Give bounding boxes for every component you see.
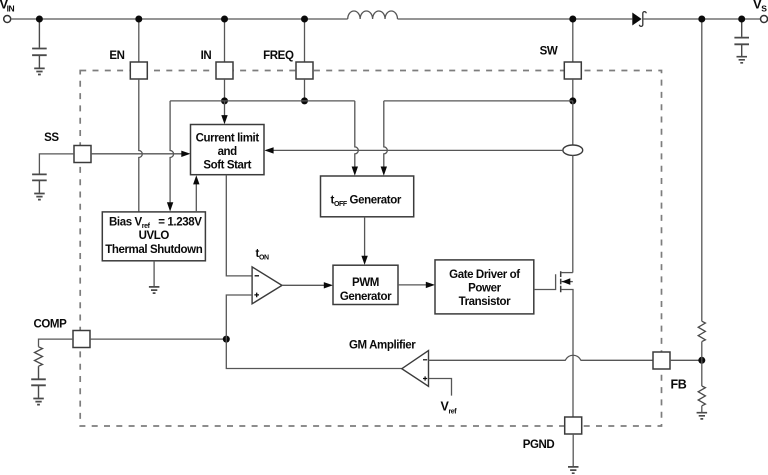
wire SW pin down	[572, 79, 574, 101]
junction C4 on rail	[738, 16, 745, 23]
svg-text:Vref: Vref	[441, 400, 458, 416]
wire SW junction to current sensor	[572, 101, 574, 145]
svg-text:PWM: PWM	[352, 277, 379, 289]
ground C3	[33, 399, 44, 405]
svg-text:Gate Driver of: Gate Driver of	[449, 269, 520, 281]
IC boundary dashed box	[80, 71, 661, 427]
resistor R2 (lower divider)	[698, 386, 705, 406]
diode D1 (schottky)	[632, 12, 646, 27]
svg-text:tON: tON	[256, 248, 269, 262]
wire top rail VIN to inductor	[11, 18, 348, 20]
capacitor C4 (output cap)	[734, 19, 749, 56]
svg-text:FREQ: FREQ	[263, 50, 294, 62]
wire GM plus input to Vref	[429, 379, 452, 396]
wire VS rail to R1	[701, 19, 703, 321]
pin SW	[564, 62, 581, 79]
pin COMP	[73, 331, 90, 348]
wire IN pin to internal rail	[224, 79, 226, 101]
current sensor ellipse	[563, 145, 583, 155]
svg-text:Current limit: Current limit	[196, 132, 260, 144]
wire COMP pin to compensation network	[39, 339, 74, 347]
junction SW internal	[569, 97, 576, 104]
pin FREQ	[296, 62, 313, 79]
wire rail to tOFF left input (hops over sense wire)	[355, 101, 359, 167]
wire comparator output to PWM (arrow)	[282, 284, 325, 286]
wire FREQ column from rail	[304, 19, 306, 62]
svg-text:VS: VS	[753, 0, 767, 14]
wire rail down to Bias block (arrow, hops over SS wire)	[170, 101, 174, 203]
wire IN column from rail	[224, 19, 226, 62]
pin PGND	[565, 417, 582, 434]
junction FREQ column on rail	[301, 16, 308, 23]
wire R1 to FB node	[701, 342, 703, 361]
ground PGND	[568, 467, 579, 473]
ground C1	[34, 68, 45, 74]
junction SW column on rail	[569, 16, 576, 23]
svg-text:VIN: VIN	[0, 0, 15, 14]
wire node A to GM amplifier output	[226, 339, 401, 368]
block Bias Vref UVLO Thermal Shutdown	[102, 212, 205, 261]
svg-text:COMP: COMP	[33, 318, 67, 330]
junction EN column on rail	[135, 16, 142, 23]
svg-text:FB: FB	[671, 378, 687, 392]
wire EN column from rail	[138, 19, 140, 62]
svg-text:EN: EN	[109, 50, 124, 62]
junction FREQ internal rail	[301, 97, 308, 104]
pin IN	[216, 62, 233, 79]
wire PGND pin to ground	[572, 434, 574, 466]
junction C1 on VIN rail	[36, 16, 43, 23]
wire SW column from rail	[572, 19, 574, 62]
wire IN junction to Current limit block (arrow)	[224, 101, 226, 116]
svg-text:Power: Power	[468, 282, 501, 294]
wire FB node to R2	[701, 360, 703, 386]
wire current sense to Current limit block (arrow)	[273, 149, 563, 151]
capacitor C1 (input cap)	[32, 19, 47, 68]
pin FB	[653, 352, 670, 369]
junction node A (COMP net)	[223, 336, 230, 343]
node VS terminal	[761, 16, 768, 23]
ground C4	[737, 57, 748, 63]
junction IN column on rail	[221, 16, 228, 23]
op-amp GM amplifier	[402, 351, 429, 387]
junction IN internal rail	[221, 97, 228, 104]
svg-text:IN: IN	[201, 50, 212, 62]
wire COMP pin to node A	[90, 338, 226, 340]
svg-text:SW: SW	[540, 45, 558, 57]
ground C2	[34, 194, 45, 200]
pin SS	[74, 146, 91, 163]
wire SW rail to tOFF right input (hops over sense wire)	[384, 101, 388, 167]
block PWM Generator	[333, 265, 398, 304]
wire FB pin to divider	[670, 359, 702, 361]
svg-text:Thermal Shutdown: Thermal Shutdown	[105, 244, 202, 256]
resistor R1 (upper divider)	[698, 321, 705, 341]
ground R2	[697, 413, 708, 419]
wire top rail diode to VS	[643, 18, 761, 20]
wire EN pin to Bias block (hops over SS wire)	[139, 79, 143, 212]
node VIN terminal	[4, 16, 11, 23]
wire body lead	[561, 281, 573, 283]
block Gate Driver of Power Transistor	[435, 260, 534, 314]
svg-text:PGND: PGND	[523, 439, 555, 451]
inductor L1	[348, 11, 398, 19]
MOSFET body arrow	[562, 278, 571, 285]
capacitor C3 (compensation)	[31, 366, 46, 398]
wire SS pin to Current limit block (arrow)	[91, 153, 183, 155]
wire tOFF to PWM (arrow)	[364, 217, 366, 257]
wire Bias to Current limit (arrow up)	[195, 184, 197, 212]
op-amp tON comparator	[252, 267, 282, 304]
svg-text:Bias Vref = 1.238V: Bias Vref = 1.238V	[109, 216, 202, 230]
wire SS pin to soft-start cap	[39, 154, 74, 174]
block Current limit and Soft Start	[191, 125, 265, 175]
MOSFET channel segments	[560, 271, 562, 292]
svg-text:SS: SS	[44, 132, 59, 144]
junction FB divider node	[698, 357, 705, 364]
ground Bias block	[153, 261, 155, 287]
transistor Q1 power MOSFET	[534, 271, 573, 417]
wire source lead down to PGND	[561, 290, 573, 418]
svg-text:Soft Start: Soft Start	[203, 160, 251, 172]
wire internal rail right (SW to tOFF)	[384, 100, 573, 102]
pin EN	[130, 62, 147, 79]
svg-text:Transistor: Transistor	[459, 296, 512, 308]
wire PWM to Gate Driver (arrow)	[398, 284, 427, 286]
wire Current limit to comparator minus input	[226, 175, 252, 276]
capacitor C2 (soft start)	[32, 174, 47, 193]
wire sensor to MOSFET drain	[572, 155, 574, 272]
svg-text:and: and	[218, 146, 238, 158]
block tOFF Generator	[321, 176, 414, 217]
wire gate lead	[534, 274, 556, 289]
wire GM minus input to FB (hops over MOSFET source wire)	[429, 355, 654, 360]
wire R2 to ground	[701, 406, 703, 412]
svg-text:GM Amplifier: GM Amplifier	[349, 339, 416, 351]
wire node A to comparator plus input	[226, 295, 252, 339]
wire top rail inductor to diode	[398, 18, 633, 20]
resistor R3 (compensation)	[35, 347, 43, 366]
svg-text:UVLO: UVLO	[139, 230, 170, 242]
wire internal rail left (IN/FREQ)	[170, 100, 355, 102]
junction R1 column on rail	[698, 16, 705, 23]
wire drain lead	[561, 272, 573, 274]
wire FREQ pin to internal rail	[304, 79, 306, 101]
svg-text:Generator: Generator	[340, 291, 392, 303]
